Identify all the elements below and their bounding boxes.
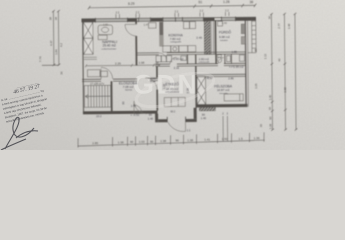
svg-text:6.29: 6.29 xyxy=(128,2,135,6)
left wall window box with X glazing xyxy=(83,22,93,54)
svg-text:36: 36 xyxy=(268,107,272,111)
small 2|2 tick pairs under top line xyxy=(116,8,230,18)
bottom chain labels xyxy=(92,136,260,145)
svg-text:40: 40 xyxy=(277,58,281,62)
left chain labels (rotated) xyxy=(38,17,63,75)
room label FURDO xyxy=(219,29,232,41)
svg-text:1.00: 1.00 xyxy=(139,140,145,144)
corridor partitions xyxy=(186,55,188,64)
FELSZOBA top wall xyxy=(196,73,245,75)
corridor west cabinets xyxy=(156,56,161,62)
wall between NAPPALI and KONYHA xyxy=(135,21,137,23)
bottom-left exterior wall xyxy=(83,111,158,115)
top overall dimension line 6.29 xyxy=(88,4,257,10)
svg-text:1.36: 1.36 xyxy=(254,136,260,140)
svg-text:7.08 m2: 7.08 m2 xyxy=(123,85,134,89)
kitchen counter row xyxy=(163,46,196,53)
wall A under KONYHA/FURDO xyxy=(137,52,159,54)
svg-text:2 2: 2 2 xyxy=(175,9,179,13)
svg-text:2.85: 2.85 xyxy=(92,141,98,145)
svg-text:1.41: 1.41 xyxy=(204,138,210,142)
corridor door arcs xyxy=(170,57,177,64)
middle band small labels xyxy=(173,56,244,81)
NAPPALI south cabinets xyxy=(87,70,107,77)
stair east wall xyxy=(110,81,112,111)
svg-text:1.40: 1.40 xyxy=(131,104,137,108)
door arc NAPPALI-KONYHA xyxy=(125,24,137,36)
chimney hatched block xyxy=(204,21,210,54)
svg-text:4.2: 4.2 xyxy=(59,43,63,47)
svg-text:1.40: 1.40 xyxy=(268,94,272,100)
right chain labels (rotated) xyxy=(253,15,291,129)
svg-text:2.77: 2.77 xyxy=(277,23,281,29)
small dims right of ELOSZOBA xyxy=(150,76,156,83)
svg-text:2.26: 2.26 xyxy=(115,61,121,65)
svg-text:36: 36 xyxy=(267,16,271,20)
svg-text:85: 85 xyxy=(254,48,258,52)
kitchen tall cabinet (dark) xyxy=(159,22,163,47)
svg-text:90: 90 xyxy=(150,139,154,143)
svg-text:10.87 m2: 10.87 m2 xyxy=(217,88,230,92)
svg-text:90 2: 90 2 xyxy=(171,111,176,114)
room label ELOSZOBA xyxy=(119,80,138,91)
top dimension labels xyxy=(128,0,253,6)
svg-text:36: 36 xyxy=(259,124,263,128)
svg-text:1.84: 1.84 xyxy=(54,49,58,55)
door arc near 1.40 label xyxy=(133,105,142,114)
svg-text:melegpadló: melegpadló xyxy=(170,42,182,44)
right loggia lines xyxy=(251,17,253,52)
bottom wall under FELSZOBA xyxy=(197,104,248,107)
staircase walk line with arrow xyxy=(85,94,110,98)
svg-text:1.40: 1.40 xyxy=(201,116,207,120)
svg-text:1.60: 1.60 xyxy=(222,22,227,25)
NAPPALI sofa group xyxy=(98,25,113,40)
watermark swoosh xyxy=(133,66,217,113)
room label KONYHA xyxy=(168,33,183,43)
svg-text:1.28: 1.28 xyxy=(223,0,230,4)
svg-text:38: 38 xyxy=(49,17,53,21)
svg-text:2.80 m2: 2.80 m2 xyxy=(199,57,210,61)
svg-text:1.13: 1.13 xyxy=(263,53,267,59)
top exterior wall xyxy=(81,16,256,27)
svg-text:29.40 m2: 29.40 m2 xyxy=(103,44,117,48)
svg-text:1.38: 1.38 xyxy=(162,83,166,89)
svg-text:9.08 m2: 9.08 m2 xyxy=(219,35,230,39)
wall piers (dark) xyxy=(81,17,256,22)
svg-text:1.98: 1.98 xyxy=(138,61,144,65)
left dimension chain xyxy=(41,10,60,66)
svg-text:szilárd burkolat: szilárd burkolat xyxy=(101,47,116,50)
recessed entry wall xyxy=(158,119,167,122)
svg-text:38: 38 xyxy=(249,0,253,4)
svg-text:2 2: 2 2 xyxy=(225,8,229,12)
svg-text:1.5: 1.5 xyxy=(239,137,244,141)
svg-text:2 2: 2 2 xyxy=(187,128,191,132)
svg-text:kisszoba: kisszoba xyxy=(219,93,228,95)
svg-text:1.85: 1.85 xyxy=(232,50,238,54)
ETKEZO west wall xyxy=(156,66,158,77)
svg-text:20 2: 20 2 xyxy=(96,114,102,118)
svg-text:+ -0.52: + -0.52 xyxy=(130,113,139,117)
right dimension chains xyxy=(270,13,297,131)
room label NAPPALI xyxy=(101,40,117,50)
svg-text:0.95 m2: 0.95 m2 xyxy=(173,57,184,61)
svg-text:17 x28 x17x: 17 x28 x17x xyxy=(90,82,105,86)
entry door arc xyxy=(168,122,186,132)
svg-text:1.47: 1.47 xyxy=(144,24,149,27)
svg-text:2 2: 2 2 xyxy=(200,9,204,13)
svg-text:1.40: 1.40 xyxy=(148,117,154,121)
ETKEZO east wall xyxy=(195,66,197,108)
svg-text:2 2: 2 2 xyxy=(116,10,120,14)
FELSZOBA west glazed door with X xyxy=(197,77,206,105)
staircase xyxy=(84,85,111,107)
door arc ETKEZO-ELOSZOBA xyxy=(145,78,157,90)
window size labels xyxy=(103,22,227,27)
hatched exterior strip xyxy=(199,107,215,111)
paper background xyxy=(0,0,345,150)
svg-text:1.28: 1.28 xyxy=(268,123,272,129)
WC toilet xyxy=(217,55,221,58)
svg-text:1.38: 1.38 xyxy=(160,139,166,143)
small door dims bottom area xyxy=(96,103,207,133)
svg-text:2 2: 2 2 xyxy=(136,10,140,14)
svg-text:3.48: 3.48 xyxy=(287,23,291,29)
etkezo table xyxy=(164,97,185,106)
svg-text:1.38: 1.38 xyxy=(187,138,193,142)
bottom dimension chain xyxy=(78,132,265,147)
svg-text:36: 36 xyxy=(59,71,63,75)
svg-text:2.46: 2.46 xyxy=(196,35,202,39)
svg-text:lejárója: lejárója xyxy=(125,88,133,91)
FURDO west wall xyxy=(214,21,216,55)
svg-text:90: 90 xyxy=(130,140,134,144)
svg-text:7.74: 7.74 xyxy=(38,56,42,62)
porch side wall xyxy=(194,108,197,119)
bidet room fixture xyxy=(227,56,231,62)
FURDO tub and sink along east wall xyxy=(241,24,245,34)
interior dim line 2.26/1.98/38 xyxy=(85,64,160,68)
svg-text:10.33 m2: 10.33 m2 xyxy=(166,87,179,91)
felszoba 2|2 ticks xyxy=(223,116,228,142)
svg-text:4.47: 4.47 xyxy=(49,40,53,46)
signature scribble xyxy=(1,117,38,150)
svg-text:90: 90 xyxy=(268,116,272,120)
step down wall xyxy=(155,114,158,123)
svg-text:38: 38 xyxy=(155,61,159,65)
kitchen wall cabinet xyxy=(148,23,156,29)
wall B corridor south xyxy=(155,63,169,65)
corridor small sink xyxy=(181,56,187,61)
svg-text:38: 38 xyxy=(54,17,58,21)
svg-text:90: 90 xyxy=(175,139,179,143)
svg-text:2.86: 2.86 xyxy=(228,76,234,80)
svg-text:7.80 m2: 7.80 m2 xyxy=(170,37,181,41)
wall jamb ticks xyxy=(95,17,235,23)
svg-text:szilárd padló: szilárd padló xyxy=(199,61,210,64)
svg-text:90: 90 xyxy=(121,101,125,105)
radiator sill lines below window xyxy=(84,56,97,58)
door arc NAPPALI-ELOSZOBA xyxy=(101,67,113,79)
svg-text:1.05: 1.05 xyxy=(254,83,258,89)
svg-text:1.50: 1.50 xyxy=(222,137,228,141)
right exterior wall xyxy=(244,17,247,106)
entry door jambs xyxy=(166,117,168,122)
wall above ELOSZOBA xyxy=(82,79,158,82)
stamp block lower-left (typed, tilted) xyxy=(0,80,51,124)
svg-text:61: 61 xyxy=(198,0,202,4)
paper grain xyxy=(0,0,345,150)
svg-text:FÜRDŐ: FÜRDŐ xyxy=(219,29,231,34)
shower against east wall xyxy=(239,55,244,61)
svg-text:2.16: 2.16 xyxy=(174,66,180,70)
FELSZOBA bed xyxy=(224,94,243,101)
svg-text:1.38: 1.38 xyxy=(118,140,124,144)
svg-text:3.18: 3.18 xyxy=(186,88,190,94)
room label FELSZOBA xyxy=(214,83,233,95)
svg-text:szilárd burkolat: szilárd burkolat xyxy=(165,91,179,94)
svg-text:1.95 m2: 1.95 m2 xyxy=(233,65,244,69)
svg-text:3.98: 3.98 xyxy=(283,87,287,93)
room label ETKEZO xyxy=(165,82,180,94)
svg-text:belsőtér: belsőtér xyxy=(220,39,228,42)
left exterior wall xyxy=(82,19,85,114)
door arc ELOSZOBA south exit xyxy=(134,101,147,114)
